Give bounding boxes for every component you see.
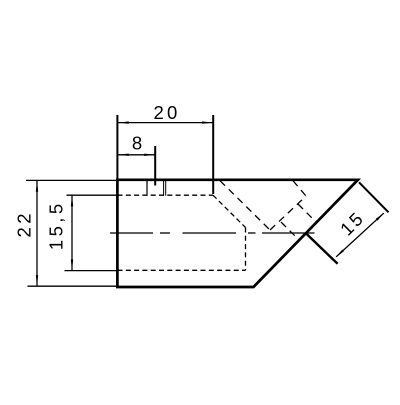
dimension 15: lower arrow — [335, 250, 344, 258]
hidden cavity diagonal — [213, 195, 246, 227]
dimension 20: left arrow — [118, 121, 129, 123]
hidden rotated-profile edge D4 — [293, 181, 306, 196]
svg-text:15,5: 15,5 — [46, 200, 67, 250]
hidden rotated-profile edge D3 — [270, 196, 306, 230]
svg-text:22: 22 — [14, 210, 35, 237]
hidden rotated-slot edge D6 — [281, 222, 297, 238]
dimension 20: right arrow — [202, 121, 213, 123]
slot left edge — [146, 181, 148, 196]
dimension 22: bottom arrow — [36, 275, 38, 286]
dimension 15: upper extension line — [359, 182, 389, 212]
dimension 20: left extension line — [116, 115, 118, 180]
svg-text:20: 20 — [154, 102, 181, 123]
dimension 8: left arrow — [118, 154, 129, 156]
dimension 8: right arrow — [144, 154, 155, 156]
hidden rotated-profile edge D1 — [220, 181, 270, 230]
dimension 20: dimension line — [118, 122, 213, 124]
dimension 20: right extension line — [212, 115, 214, 194]
dimension 15: upper arrow — [376, 213, 385, 221]
center line — [110, 232, 315, 234]
dimension 15: lower extension line — [306, 233, 338, 263]
dimension 8: right extension line (slot centre) — [154, 146, 156, 186]
hidden rotated-slot edge D5 — [298, 204, 315, 221]
hidden cavity top line — [118, 194, 214, 196]
slot right edge inner line — [165, 181, 167, 196]
dimension 22: top arrow — [36, 181, 38, 192]
svg-text:8: 8 — [132, 133, 142, 154]
slot right edge — [163, 181, 165, 196]
dimension 15: dimension line — [336, 213, 384, 257]
hidden cavity right edge — [245, 228, 247, 271]
dimension 22: dimension line — [36, 181, 38, 286]
dimension 15,5: dimension line — [71, 196, 73, 271]
dimension 8: dimension line — [118, 154, 156, 156]
dimension 15,5: top arrow — [71, 196, 73, 207]
dimension 15,5: bottom extension line — [65, 270, 117, 272]
dimension 15,5: top extension line — [67, 194, 117, 196]
hidden cavity bottom line — [118, 269, 246, 271]
outer profile outline — [117, 180, 358, 287]
dimension 15,5: bottom arrow — [71, 260, 73, 271]
dimension 22: bottom extension line — [28, 285, 117, 287]
dimension 22: top extension line — [26, 179, 116, 181]
